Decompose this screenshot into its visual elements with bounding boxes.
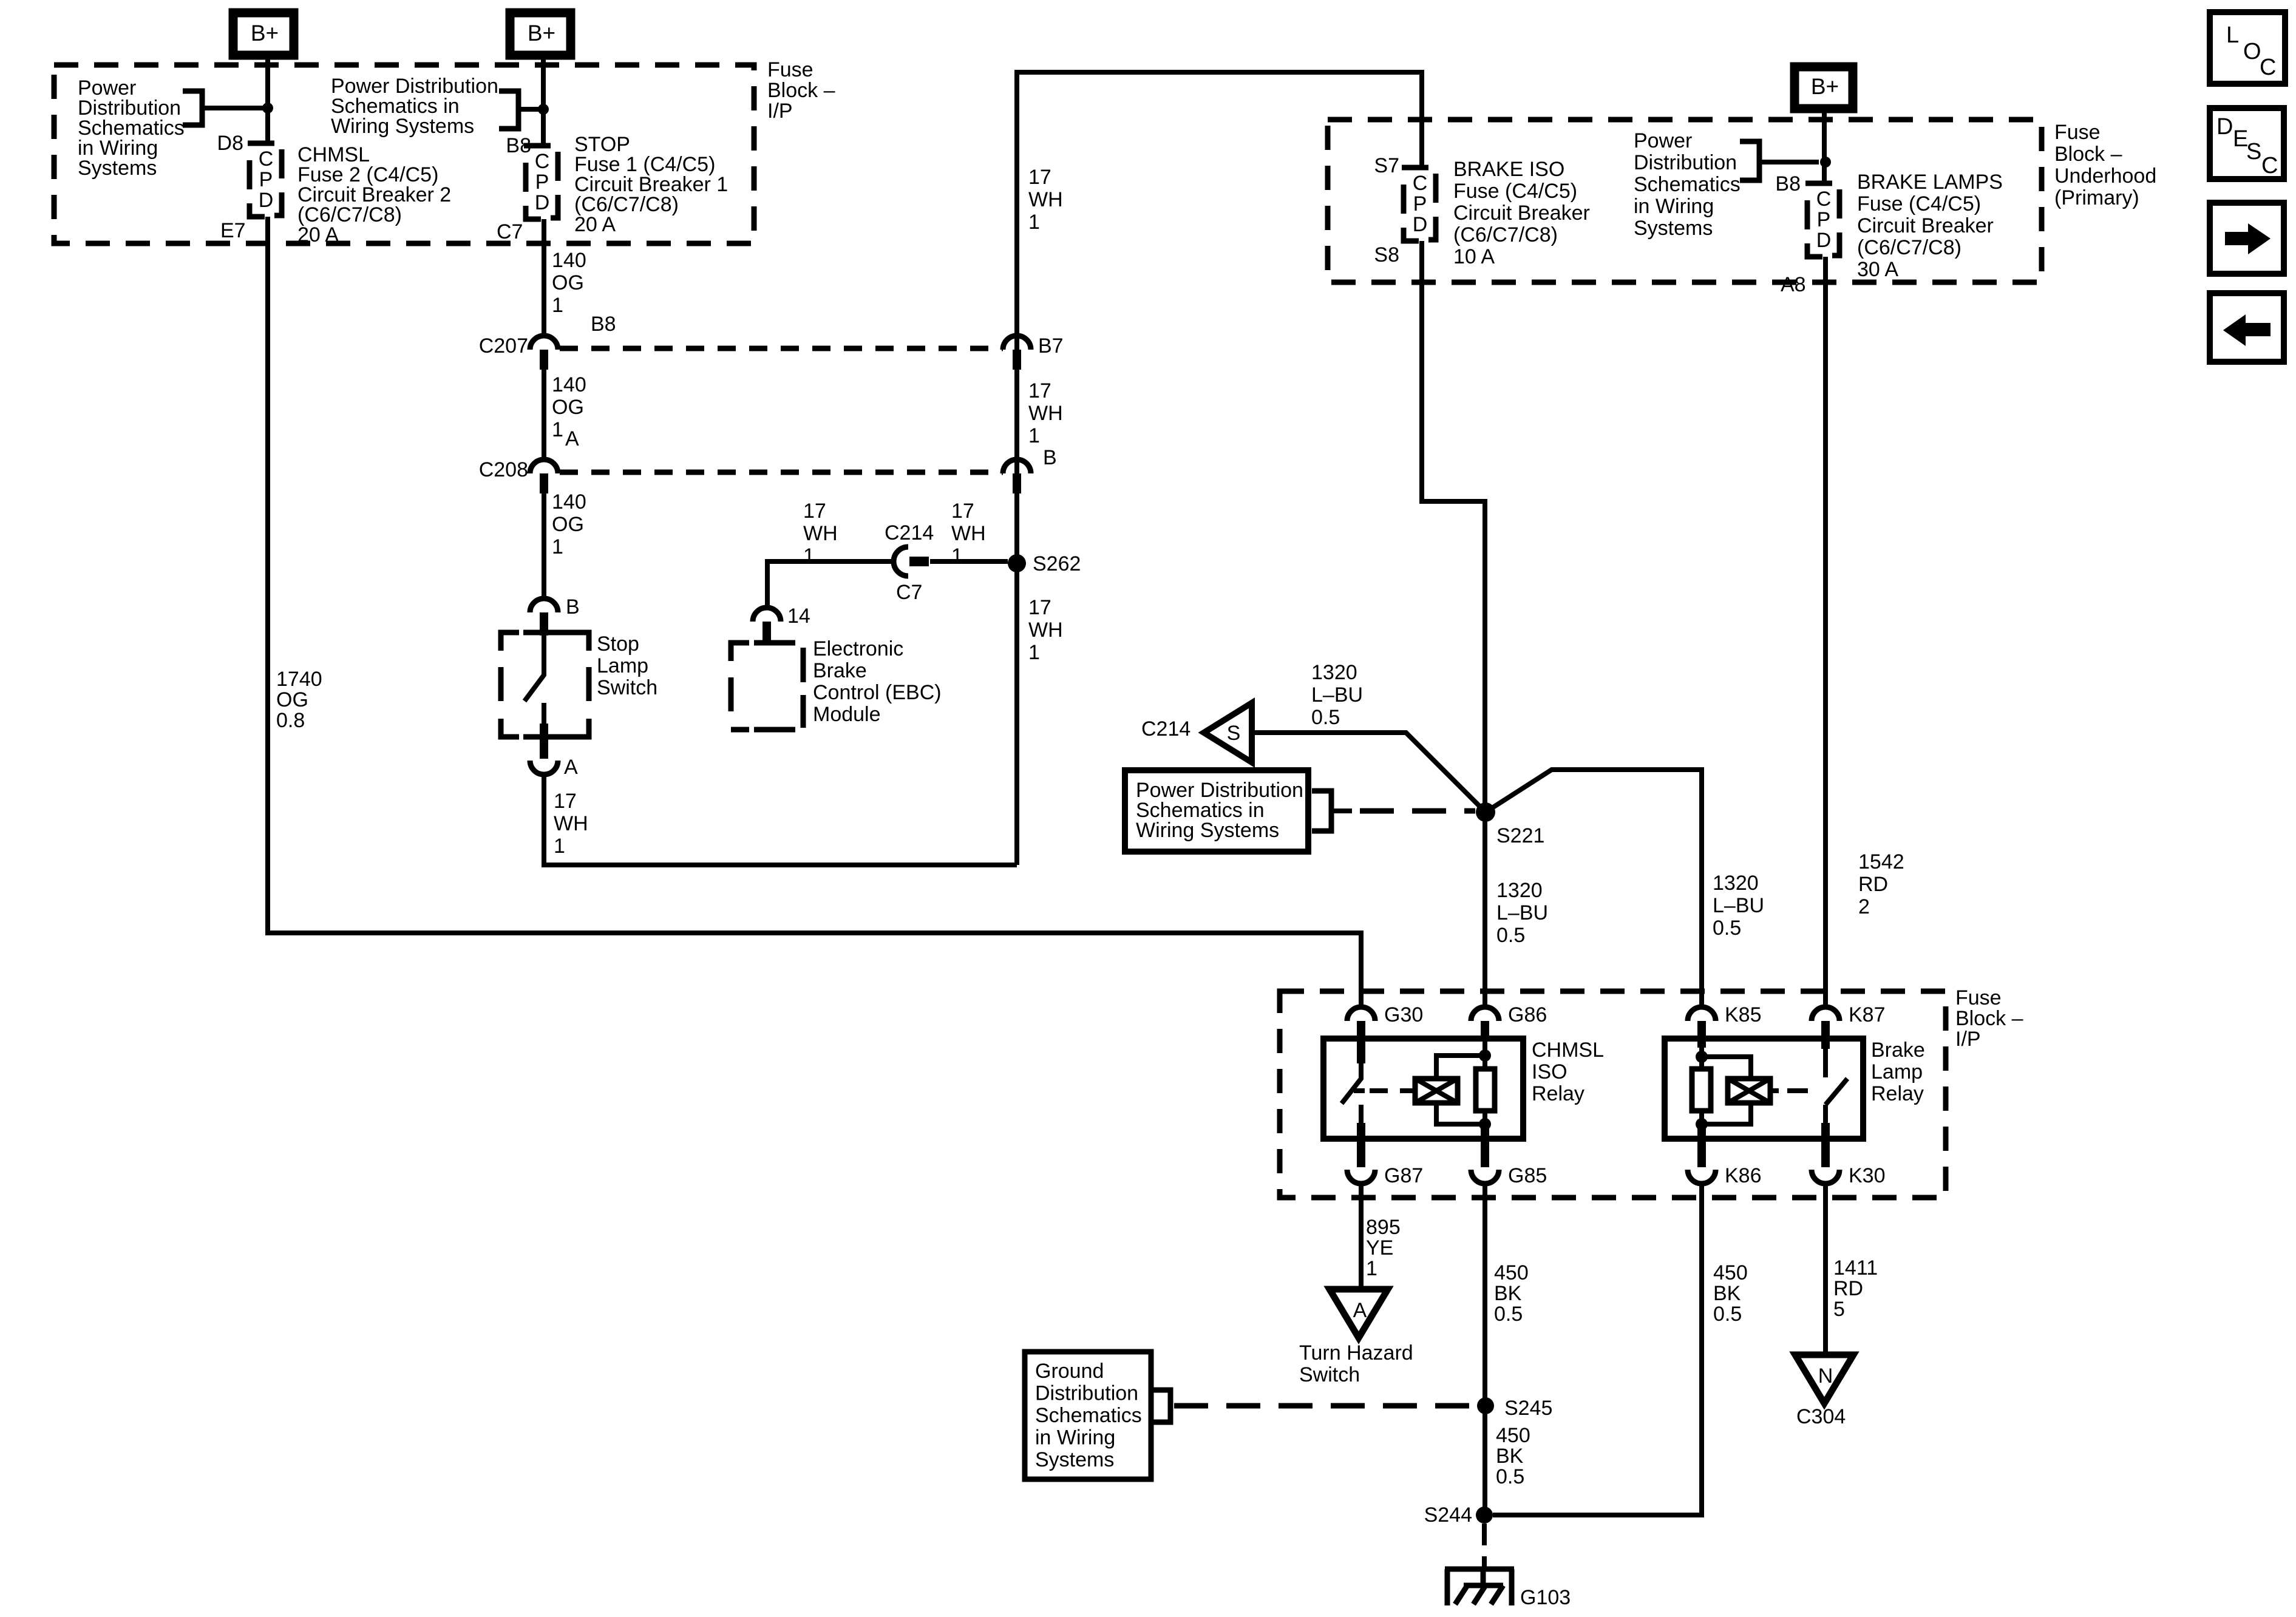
svg-text:D: D [1816,229,1832,252]
pin label E7 [220,219,246,242]
fuse block I/P dashed box [54,65,754,243]
svg-text:S245: S245 [1504,1397,1552,1420]
svg-text:Block –: Block – [2054,143,2122,166]
note Power Distribution Schematics in Wiring Systems (left) [78,76,185,180]
svg-text:Schematics: Schematics [1634,173,1741,196]
battery B+ symbol 3 [1795,67,1853,109]
svg-text:S: S [2246,139,2261,164]
svg-text:S221: S221 [1496,824,1544,847]
pin label 14 [787,605,810,628]
wire label 140 OG 1 (c) [552,490,586,558]
pin label K85 [1725,1003,1762,1026]
wire label 1320 L-BU 0.5 (top) [1311,661,1363,729]
label S221 [1496,824,1544,847]
CHMSL ISO relay box [1323,1039,1523,1139]
relay1 junction dots [1479,1049,1491,1130]
splice S245 [1477,1397,1494,1414]
relay2 resistor [1692,1069,1711,1111]
svg-text:1320: 1320 [1713,872,1759,895]
svg-text:0.5: 0.5 [1713,1303,1742,1326]
stop lamp switch bottom pin [540,724,548,759]
connector K85 pin [1697,1021,1706,1040]
wire label 17 WH 1 (switch) [554,790,588,858]
relay2 linkage dashes [1787,1088,1821,1093]
label BRAKE LAMPS fuse [1857,171,2003,281]
label C207 [479,334,528,358]
connector B7 [1003,336,1031,350]
wire 140 OG C208 to stop lamp switch [542,493,546,598]
svg-text:Ground: Ground [1035,1360,1104,1383]
label Fuse Block Underhood Primary [2054,121,2156,209]
splice S244 [1476,1507,1493,1524]
svg-text:S262: S262 [1033,552,1081,575]
wire 1411 RD from K30 to C304 [1823,1184,1828,1355]
wire label 1542 RD 2 [1858,850,1904,918]
svg-text:17: 17 [554,790,577,813]
svg-text:2: 2 [1858,895,1870,918]
svg-text:BRAKE LAMPS: BRAKE LAMPS [1857,171,2003,194]
svg-text:C214: C214 [885,521,934,544]
note Power Distribution Schematics in Wiring Systems (second) [331,75,498,138]
pin label S7 [1374,154,1399,177]
bracket to ground note [1153,1390,1170,1422]
relay1 switch lower contact [1359,1105,1364,1124]
svg-text:ISO: ISO [1532,1060,1567,1083]
off-page triangle N [1795,1355,1853,1403]
svg-text:C: C [259,147,274,171]
label C7 inline [896,581,922,604]
svg-text:1: 1 [803,544,815,568]
junction node on B+1 wire [262,103,273,114]
svg-text:L–BU: L–BU [1496,901,1548,924]
svg-text:B: B [1043,446,1057,469]
relay1 switch pin [1357,1036,1365,1063]
junction node on B+3 wire [1820,157,1831,168]
connector G30 pin [1357,1021,1365,1040]
svg-text:Block –: Block – [767,79,835,102]
wire 17 WH from switch A down and right [544,775,1017,865]
svg-text:Schematics: Schematics [1035,1404,1142,1427]
wire label 17 WH 1 (top) [1028,166,1063,234]
svg-text:895: 895 [1366,1216,1401,1239]
svg-text:D: D [535,191,550,214]
BRAKE LAMPS fuse CPD symbol [1805,183,1839,257]
pin label B7 [1038,334,1064,358]
CHMSL fuse CPD symbol [248,143,282,217]
svg-text:P: P [1413,192,1427,215]
svg-text:in Wiring: in Wiring [1035,1426,1115,1449]
svg-text:G87: G87 [1384,1164,1423,1187]
inline connector C214 pin [909,557,929,566]
relay2 coil feed pin [1697,1036,1706,1048]
svg-text:17: 17 [803,500,826,523]
svg-text:S: S [1227,722,1241,745]
svg-text:P: P [259,168,273,191]
svg-text:17: 17 [1028,166,1051,189]
connector G85 [1471,1170,1499,1184]
svg-text:L: L [2226,22,2239,48]
pin label A at C208 [565,427,579,450]
svg-text:C: C [1816,188,1832,211]
svg-text:BRAKE ISO: BRAKE ISO [1453,158,1564,181]
svg-text:1: 1 [1366,1257,1377,1280]
svg-text:A: A [1353,1299,1367,1322]
svg-text:1320: 1320 [1496,879,1543,902]
svg-text:1: 1 [1028,424,1040,447]
svg-text:Stop: Stop [597,632,639,656]
wire label 17 WH 1 (right of C214) [951,500,986,568]
connector K85 [1688,1007,1716,1021]
svg-text:5: 5 [1833,1298,1845,1321]
svg-text:0.5: 0.5 [1496,1465,1524,1488]
pin label K87 [1849,1003,1886,1026]
connector G86 [1471,1007,1499,1021]
connector G30 [1347,1007,1375,1021]
svg-text:C208: C208 [479,458,528,481]
svg-text:17: 17 [1028,379,1051,402]
svg-text:140: 140 [552,249,586,272]
dashed harness line C207 to B7 [560,346,1003,351]
svg-text:YE: YE [1366,1236,1393,1259]
wire B+2 down to fuse B8 [541,55,546,146]
connector K87 [1812,1007,1839,1021]
svg-text:D: D [2216,114,2233,140]
svg-text:1: 1 [951,544,963,568]
svg-text:Block –: Block – [1955,1007,2023,1030]
connector B at stop lamp switch [530,598,558,612]
relay1 coil bottom pin [1481,1126,1489,1167]
pin label B mid [1043,446,1057,469]
svg-text:P: P [1817,208,1831,231]
wire label 450 BK 0.5 (mid) [1496,1424,1530,1488]
label Stop Lamp Switch [597,632,657,699]
wire from C214 to EBC [767,561,894,608]
BRAKE ISO fuse CPD symbol [1402,168,1436,241]
wire 450 BK from G85 to S245 S244 [1483,1184,1487,1515]
relay1 coil feed wire [1436,1040,1485,1126]
battery B+ symbol 2 [510,13,571,55]
pin label A8 [1781,273,1806,296]
svg-text:D8: D8 [217,132,243,155]
svg-text:BK: BK [1496,1445,1524,1468]
pin label A below switch [564,756,578,779]
svg-text:OG: OG [552,271,584,294]
pin label K30 [1849,1164,1886,1187]
relay2 switch top pin [1821,1036,1830,1049]
svg-text:1: 1 [552,535,563,558]
label S245 [1504,1397,1552,1420]
bracket to boxed note [1312,791,1331,831]
wire label 17 WH 1 (below S262) [1028,596,1063,664]
svg-text:G86: G86 [1508,1003,1547,1026]
pin label G85 [1508,1164,1547,1187]
svg-text:L–BU: L–BU [1713,894,1764,917]
wire label 140 OG 1 (a) [552,249,586,317]
svg-text:CHMSL: CHMSL [1532,1039,1604,1062]
svg-text:Brake: Brake [813,659,867,682]
relay2 switch upper contact [1823,1045,1828,1077]
svg-text:D: D [1413,213,1428,236]
svg-text:C7: C7 [896,581,922,604]
label STOP Fuse 1 [574,133,728,236]
pin label B at switch [566,595,580,619]
connector B7 pin [1013,350,1021,370]
dashed wire S244 to ground [1482,1524,1487,1567]
svg-text:(C6/C7/C8): (C6/C7/C8) [1453,223,1558,246]
connector C208 pin [540,473,548,493]
Brake Lamp relay box [1665,1039,1863,1139]
wire label 1411 RD 5 [1833,1256,1878,1321]
relay2 switch lower contact [1823,1105,1828,1124]
pin label D8 [217,132,243,155]
relay1 switch bottom pin [1357,1123,1365,1167]
svg-text:BK: BK [1713,1282,1741,1305]
wire label 17 WH 1 (left of C214) [803,500,838,568]
wire B+3 down to brake lamps fuse [1822,109,1827,183]
wire label 1320 L-BU 0.5 (right) [1713,872,1764,940]
svg-text:Module: Module [813,703,881,726]
connector K87 pin [1821,1021,1830,1040]
svg-text:C: C [2261,153,2278,178]
connector A below switch [530,761,558,775]
junction node on B+2 wire [538,104,549,115]
svg-text:B: B [566,595,580,619]
pin label G30 [1384,1003,1423,1026]
svg-text:140: 140 [552,373,586,396]
label CHMSL ISO Relay [1532,1039,1604,1105]
svg-text:450: 450 [1496,1424,1530,1447]
relay1 switch tick [1354,1088,1365,1093]
label G103 [1520,1586,1571,1609]
svg-text:E7: E7 [220,219,246,242]
svg-text:Fuse: Fuse [2054,121,2101,144]
splice S262 [1008,554,1026,572]
svg-text:1320: 1320 [1311,661,1357,684]
connector B mid [1003,459,1031,473]
wire from note 3 to B+ feed [1759,160,1819,164]
svg-text:A8: A8 [1781,273,1806,296]
fuse block I/P relay dashed box [1280,991,1946,1198]
wire label 1320 L-BU 0.5 (left) [1496,879,1548,947]
svg-text:B+: B+ [528,21,555,46]
svg-text:S8: S8 [1374,243,1399,266]
left arrow nav box [2210,293,2284,362]
wire 1320 from S8 down to G86 [1422,241,1485,1007]
connector C214 S triangle [1204,703,1252,762]
svg-text:20 A: 20 A [297,223,339,246]
svg-text:1411: 1411 [1833,1256,1878,1280]
connector K86 [1688,1170,1716,1184]
connector B mid pin [1013,473,1021,493]
relay2 coil feed wire [1702,1040,1751,1126]
svg-text:0.5: 0.5 [1311,706,1340,729]
LOC nav box [2210,12,2285,84]
svg-text:450: 450 [1713,1261,1748,1284]
note Ground Distribution Schematics box [1025,1352,1151,1479]
wire from note 1 to B+ feed [202,106,265,110]
svg-text:0.5: 0.5 [1496,924,1525,947]
svg-text:1: 1 [554,835,565,858]
svg-text:(Primary): (Primary) [2054,186,2139,209]
svg-text:K87: K87 [1849,1003,1886,1026]
label C208 [479,458,528,481]
relay2 switch blade [1826,1079,1847,1105]
svg-text:OG: OG [552,513,584,536]
svg-text:1: 1 [1028,211,1040,234]
svg-text:Relay: Relay [1871,1082,1924,1105]
svg-text:10 A: 10 A [1453,245,1495,268]
label Brake Lamp Relay [1871,1039,1925,1105]
wire 1542 RD from A8 down to K87 [1823,257,1828,1007]
svg-text:C: C [535,150,550,173]
pin label B8 [506,134,531,157]
svg-text:Systems: Systems [78,157,157,180]
svg-text:Circuit Breaker: Circuit Breaker [1453,202,1590,225]
svg-text:C: C [1413,172,1428,195]
svg-text:Wiring Systems: Wiring Systems [1136,819,1279,842]
svg-text:1542: 1542 [1858,850,1904,873]
relay1 linkage dashes [1370,1088,1415,1093]
wire label 450 BK 0.5 (left) [1494,1261,1529,1326]
svg-text:0.5: 0.5 [1494,1303,1523,1326]
svg-text:Systems: Systems [1634,217,1713,240]
bracket to note 2 [499,91,518,129]
connector C208 [530,459,558,473]
svg-text:WH: WH [803,522,838,545]
wire from S triangle to S221 [1252,733,1486,812]
svg-text:Systems: Systems [1035,1448,1114,1471]
label Electronic Brake Control Module [813,637,942,726]
svg-text:C: C [2260,55,2276,80]
note Power Distribution Schematics (third) [1634,129,1741,240]
svg-text:in Wiring: in Wiring [1634,195,1714,218]
svg-text:B8: B8 [1775,172,1801,195]
svg-text:WH: WH [1028,188,1063,211]
label Fuse Block I/P [767,58,835,123]
pin label K86 [1725,1164,1762,1187]
svg-text:Electronic: Electronic [813,637,903,660]
svg-text:K85: K85 [1725,1003,1762,1026]
svg-text:Relay: Relay [1532,1082,1584,1105]
label Fuse Block I/P bottom [1955,986,2023,1051]
label S262 [1033,552,1081,575]
svg-text:(C6/C7/C8): (C6/C7/C8) [1857,236,1961,259]
svg-text:20 A: 20 A [574,213,616,236]
relay1 coil [1415,1079,1458,1103]
svg-text:Circuit Breaker: Circuit Breaker [1857,214,1994,237]
svg-text:Control (EBC): Control (EBC) [813,681,942,704]
svg-text:K86: K86 [1725,1164,1762,1187]
relay2 switch bottom pin [1821,1123,1830,1167]
svg-text:RD: RD [1858,873,1888,896]
svg-text:Switch: Switch [1299,1363,1360,1386]
svg-text:30 A: 30 A [1857,258,1898,281]
wire B+1 down to fuse D8 [265,55,270,143]
svg-text:O: O [2243,39,2261,64]
pin label C7 [497,220,523,243]
dashed wire from boxed note to S221 [1331,808,1475,813]
battery B+ symbol 1 [233,13,294,55]
connector K30 [1812,1170,1839,1184]
fuse block underhood dashed box [1328,120,2042,282]
DESC nav box [2210,108,2284,179]
svg-text:Switch: Switch [597,676,657,699]
ground symbol G103 [1445,1569,1514,1605]
svg-text:P: P [535,171,549,194]
label BRAKE ISO fuse [1453,158,1590,268]
svg-text:WH: WH [1028,619,1063,642]
svg-text:17: 17 [951,500,974,523]
wire 17 WH main riser [1017,72,1422,865]
pin label S8 [1374,243,1399,266]
wire from note 2 to B+ feed [518,107,539,112]
wire label 450 BK 0.5 (right) [1713,1261,1748,1326]
svg-text:BK: BK [1494,1282,1522,1305]
label CHMSL Fuse 2 [297,143,451,246]
pin label B8 right [1775,172,1801,195]
label C304 [1796,1405,1846,1428]
stop lamp switch lower contact [542,703,546,726]
relay1 resistor [1476,1069,1495,1111]
svg-text:0.5: 0.5 [1713,917,1741,940]
relay1 switch blade [1342,1063,1361,1103]
connector C207 [530,336,558,350]
relay2 coil [1728,1079,1770,1103]
connector C207 pin [540,350,548,370]
connector G86 pin [1481,1021,1489,1040]
svg-text:1740: 1740 [276,668,322,691]
svg-text:450: 450 [1494,1261,1529,1284]
svg-text:17: 17 [1028,596,1051,619]
wire from S262 to C214 [930,559,1008,564]
svg-text:RD: RD [1833,1277,1863,1300]
wire 1740 OG from E7 down and across to G30 [268,217,1361,1007]
svg-text:S244: S244 [1424,1503,1472,1527]
label Turn Hazard Switch [1299,1341,1413,1386]
note Power Distribution Schematics boxed [1125,770,1308,852]
svg-text:B8: B8 [591,313,616,336]
svg-text:Fuse (C4/C5): Fuse (C4/C5) [1453,180,1577,203]
svg-text:Turn Hazard: Turn Hazard [1299,1341,1413,1364]
svg-text:1: 1 [552,418,563,441]
svg-text:WH: WH [1028,402,1063,425]
relay2 bottom coil pin [1697,1126,1706,1167]
wire 140 OG from C7 to C207 [542,219,546,336]
svg-text:G30: G30 [1384,1003,1423,1026]
svg-text:B+: B+ [251,21,279,46]
dashed wire ground note to S245 [1174,1403,1472,1409]
svg-text:OG: OG [276,688,308,711]
svg-text:Distribution: Distribution [1035,1382,1138,1405]
wire 140 OG C207 to C208 [542,370,546,459]
svg-text:A: A [565,427,579,450]
svg-text:Lamp: Lamp [597,654,648,677]
bracket to note 3 [1740,141,1759,180]
connector G87 [1347,1170,1375,1184]
svg-text:S7: S7 [1374,154,1399,177]
stop lamp switch blade [525,636,544,701]
off-page triangle A [1330,1289,1388,1338]
svg-text:G103: G103 [1520,1586,1571,1609]
EBC module dashed box [731,643,803,730]
svg-text:OG: OG [552,396,584,419]
svg-text:A: A [564,756,578,779]
wire 450 BK from K86 to S244 [1493,1184,1702,1515]
wire label 140 OG 1 (b) [552,373,586,441]
switch pin into box [540,612,548,636]
stop lamp switch dashed box [501,632,589,737]
svg-text:Underhood: Underhood [2054,164,2156,188]
